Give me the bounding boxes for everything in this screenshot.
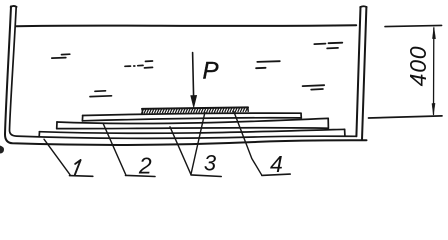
water level mark M1	[52, 54, 70, 58]
plate 2 top line (first plate under specimen)	[83, 113, 301, 115]
svg-text:2: 2	[138, 153, 152, 179]
leader to label 2	[103, 123, 126, 175]
dimension top extension line	[385, 25, 442, 26]
svg-text:3: 3	[204, 151, 217, 176]
underline of label 3	[191, 175, 221, 177]
plate 2 bottom line	[83, 118, 301, 121]
plate 3a right edge	[327, 118, 329, 128]
water level mark M6	[303, 85, 325, 89]
svg-text:P: P	[202, 58, 218, 85]
label 1	[75, 160, 81, 175]
plate 3a left edge	[56, 122, 58, 129]
tank left wall top cap	[11, 6, 17, 7]
plate 2 right edge	[300, 113, 302, 118]
leader to label 4	[234, 112, 262, 175]
underline of label 1	[70, 175, 93, 178]
tank right wall outer line	[362, 7, 366, 140]
specimen strip top line	[142, 107, 248, 109]
dimension vertical line	[433, 28, 435, 114]
plate 3b left edge	[38, 132, 40, 137]
svg-text:4: 4	[270, 151, 283, 177]
water level mark M2	[125, 61, 153, 68]
leader to label 3 right branch	[191, 112, 205, 174]
load arrow P shaft	[193, 53, 194, 98]
specimen strip right end tick	[247, 107, 249, 111]
tank right wall inner line	[356, 7, 360, 136]
dimension arrowhead bottom	[432, 103, 435, 115]
plate 3a top line (second plate)	[57, 118, 328, 123]
specimen strip hatching	[142, 108, 248, 113]
plate 3a bottom line	[57, 127, 328, 130]
plate 3b top line (third plate)	[39, 129, 344, 133]
tank left wall outer line + outer bottom	[5, 6, 367, 145]
leader to label 1	[44, 139, 70, 175]
water level mark M3	[90, 91, 112, 97]
water level mark M5	[314, 43, 342, 49]
plate 3b right edge	[344, 129, 346, 135]
underline of label 2	[126, 175, 156, 176]
plate 2 left edge	[81, 116, 83, 121]
dimension bottom extension line	[369, 116, 443, 118]
water surface line	[16, 25, 356, 26]
svg-text:400: 400	[405, 46, 431, 87]
load arrow P head	[191, 95, 197, 107]
tank left wall inner line + inner bottom	[9, 7, 356, 139]
water level mark M4	[256, 61, 280, 68]
tank right wall top cap	[360, 5, 366, 8]
specimen strip left end tick	[141, 109, 143, 113]
scan speck at left edge	[0, 146, 4, 154]
underline of label 4	[262, 174, 290, 175]
leader to label 3 left branch	[170, 127, 191, 174]
dimension arrowhead top	[432, 27, 435, 39]
